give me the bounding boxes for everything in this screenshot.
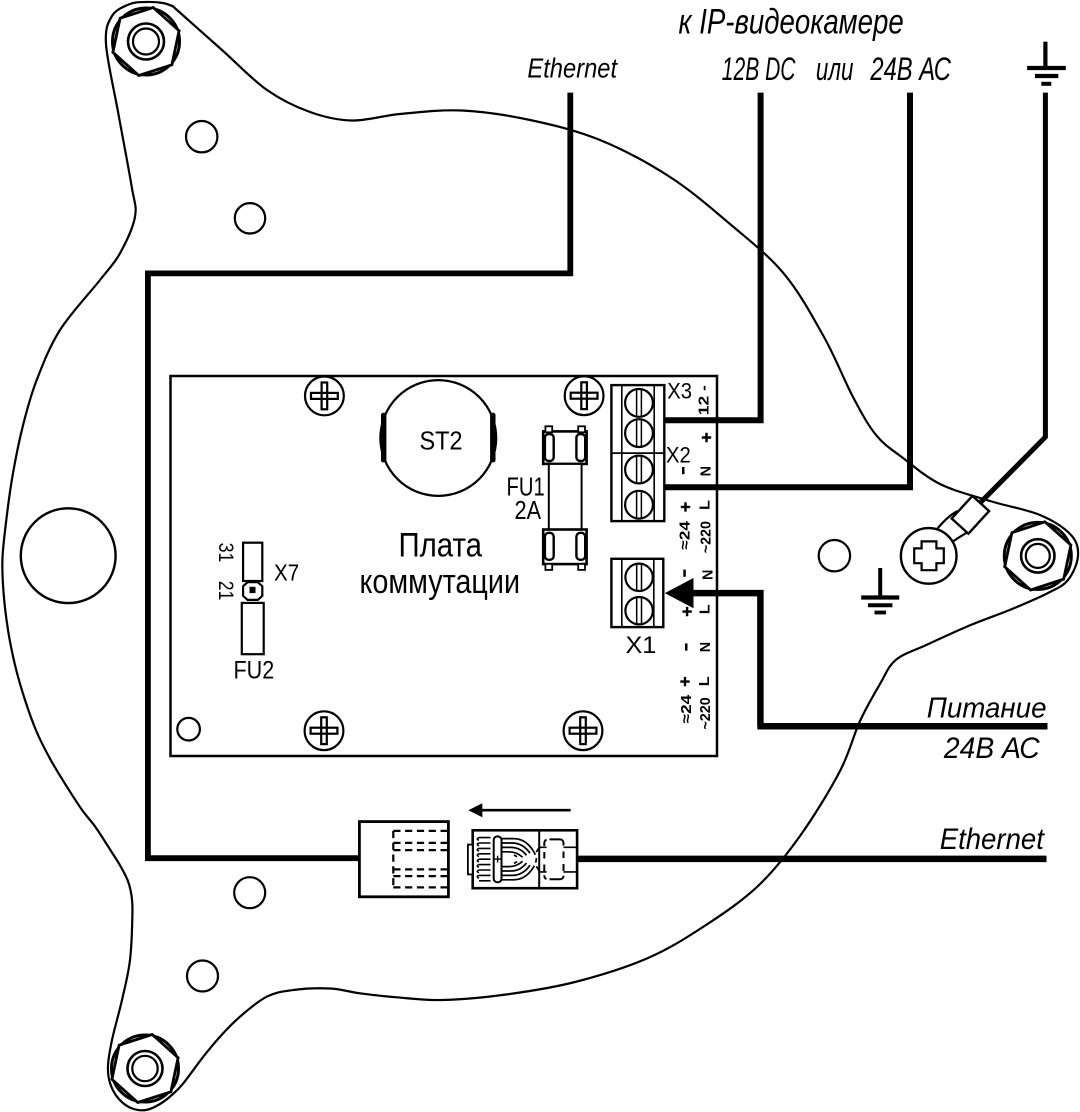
svg-text:или: или (816, 51, 854, 87)
earth symbol near ground screw (861, 568, 899, 613)
RJ45 socket (wall jack) (359, 822, 448, 897)
svg-text:X7: X7 (274, 559, 299, 585)
wire 24V AC to X2 (664, 93, 913, 488)
X1 screw 2 (625, 597, 652, 624)
nut right inner circle (1026, 544, 1050, 568)
terminal block X3/X2 body (611, 385, 664, 521)
transformer ST2 circle (380, 380, 496, 496)
big hole left (21, 508, 116, 603)
ST2 tabs (381, 413, 386, 463)
hole top-left b (235, 203, 265, 233)
svg-text:Питание: Питание (927, 693, 1047, 725)
board hole bottom-left (177, 718, 200, 741)
terminal block X1 body (611, 559, 663, 627)
X2 screw 1 (625, 456, 653, 484)
nut bottom-left inner circle (132, 1056, 157, 1081)
board screw top-right (565, 376, 604, 415)
mounting nut bottom-left hexagon (112, 1035, 178, 1103)
fuse FU1 body (549, 464, 582, 530)
plug wire fan (502, 839, 540, 880)
fuse FU1 bottom cap (543, 530, 586, 570)
svg-text:12В DC: 12В DC (722, 51, 796, 87)
hole right of board (819, 540, 850, 571)
grounding screw head (901, 528, 957, 584)
wire 12V DC to X3 (664, 93, 763, 421)
svg-text:X1: X1 (626, 632, 657, 659)
nut bottom-left outer circle (128, 1051, 163, 1086)
arrow head into X1 (665, 578, 694, 608)
wire Ethernet bottom from plug to right (577, 856, 1047, 863)
nut top-left inner circle (133, 29, 159, 55)
svg-text:N: N (698, 642, 714, 652)
mounting nut top-left hexagon (113, 8, 179, 76)
RJ45 plug on cable (468, 830, 577, 888)
hole top-left a (186, 121, 217, 152)
X7 pin pad (243, 582, 262, 600)
svg-text:N: N (700, 570, 716, 580)
svg-text:2A: 2A (515, 495, 542, 525)
mounting nut top-left washer (113, 8, 180, 75)
terminal pin labels rotated (678, 385, 717, 730)
board screw bottom-left (305, 711, 344, 750)
svg-text:21: 21 (214, 581, 237, 601)
commutation board outline (171, 376, 718, 756)
svg-text:24В АС: 24В АС (870, 51, 952, 87)
svg-text:~220: ~220 (699, 521, 715, 553)
svg-text:L: L (698, 500, 714, 510)
svg-text:~220: ~220 (698, 697, 714, 729)
svg-text:Ethernet: Ethernet (940, 823, 1046, 856)
X2 screw 2 (625, 491, 653, 519)
ring terminal lug barrel (934, 511, 972, 547)
connector X7 body (243, 543, 262, 581)
svg-text:Плата: Плата (399, 527, 483, 565)
wire ground from top symbol down to lug (979, 93, 1045, 504)
wire Ethernet top: vertical drop, horizontal run, left drop, bottom run to socket (145, 93, 573, 862)
insertion arrow (468, 803, 570, 817)
board screw top-left (305, 377, 344, 416)
X3 screw 1 (625, 389, 653, 417)
svg-text:≈24: ≈24 (679, 695, 695, 724)
svg-text:FU2: FU2 (234, 657, 275, 685)
svg-text:к IP-видеокамере: к IP-видеокамере (679, 3, 904, 42)
svg-text:X3: X3 (667, 379, 692, 404)
plug boot dashed (539, 839, 577, 879)
wire Питание 24VAC with arrow into X1 (690, 593, 1048, 726)
svg-text:Ethernet: Ethernet (527, 53, 618, 84)
ring terminal lug crimp (952, 496, 989, 534)
svg-text:31: 31 (214, 543, 237, 563)
svg-text:L: L (697, 676, 713, 686)
fuse FU2 body (242, 603, 264, 654)
board screw bottom-right (564, 711, 603, 750)
svg-text:N: N (699, 466, 715, 476)
plug contact bar (494, 836, 502, 882)
ground symbol top-right (1027, 42, 1066, 84)
svg-text:L: L (697, 604, 713, 614)
svg-text:12 -: 12 - (697, 385, 713, 415)
plug contact comb (477, 838, 490, 881)
X3 screw 2 (625, 419, 653, 447)
fuse FU1 top cap (543, 426, 586, 464)
svg-text:24В АС: 24В АС (943, 732, 1040, 765)
mounting nut right hexagon (1005, 522, 1071, 590)
svg-text:≈24: ≈24 (678, 521, 694, 550)
mounting nut right washer (1004, 522, 1071, 589)
svg-text:X2: X2 (666, 443, 691, 468)
svg-text:ST2: ST2 (420, 425, 463, 455)
nut right outer circle (1021, 539, 1054, 572)
mounting nut bottom-left washer (112, 1035, 179, 1102)
hole bottom-left a (234, 877, 265, 908)
nut top-left outer circle (128, 24, 164, 60)
X1 screw 1 (625, 564, 652, 591)
svg-text:коммутации: коммутации (360, 563, 521, 601)
hole bottom-left b (187, 961, 218, 992)
